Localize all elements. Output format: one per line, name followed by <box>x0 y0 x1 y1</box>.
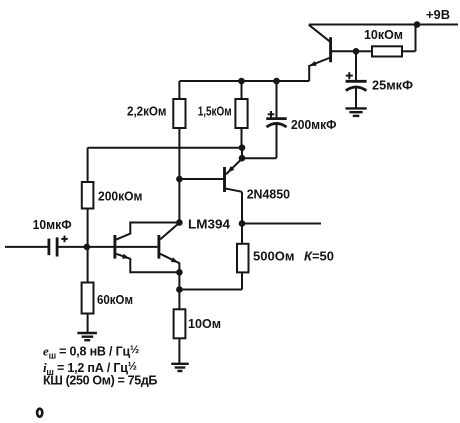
transistor LM394 left base bar <box>113 235 116 259</box>
svg-text:2N4850: 2N4850 <box>247 187 290 202</box>
ground under 60kOhm <box>77 333 97 340</box>
resistor 10Ohm <box>174 309 186 338</box>
wire top bus <box>179 80 309 82</box>
svg-text:10Ом: 10Ом <box>188 316 221 331</box>
resistor 1.5kOhm <box>235 99 247 128</box>
wire 2N4850 collector down <box>241 192 243 224</box>
ground under 25uF <box>346 108 367 116</box>
svg-text:eш = 0,8 нВ / Гц½: eш = 0,8 нВ / Гц½ <box>43 344 139 361</box>
resistor 200kOhm leads <box>87 148 89 247</box>
transistor Q1 base wire <box>331 50 356 52</box>
svg-text:1,5кОм: 1,5кОм <box>198 103 232 118</box>
wire node to emitter node <box>241 148 243 159</box>
node 1.5k bottom <box>239 144 246 151</box>
svg-text:10мкФ: 10мкФ <box>33 217 72 232</box>
+9V rail wire <box>309 24 458 26</box>
wire bases <box>57 246 157 248</box>
resistor 10kOhm <box>372 46 402 56</box>
transistor LM394 right collector <box>160 223 179 240</box>
transistor 2N4850 base wire <box>179 178 223 180</box>
ground under 10Ohm <box>171 364 188 371</box>
node input bias <box>84 244 91 251</box>
resistor 2.2kOhm leads <box>178 81 180 179</box>
wire emitters down <box>178 272 180 309</box>
wire Q1 emitter down <box>308 65 310 81</box>
capacitor 200uF <box>266 81 286 158</box>
node LM394 collectors <box>176 219 183 226</box>
wire bottom bus <box>179 289 242 291</box>
transistor Q1 collector wire <box>309 25 330 42</box>
wire input <box>5 246 49 248</box>
transistor LM394 right base bar <box>157 235 160 259</box>
svg-text:КШ (250 Ом) = 75дБ: КШ (250 Ом) = 75дБ <box>43 374 157 388</box>
wire 10Ohm to ground <box>178 338 180 363</box>
node 200uF top <box>273 78 280 85</box>
svg-text:+9В: +9В <box>426 7 450 22</box>
capacitor 25uF <box>346 51 367 108</box>
wire output <box>242 223 321 225</box>
transistor LM394 right emitter <box>160 254 179 272</box>
node +9V junction <box>414 21 421 28</box>
resistor 1.5kOhm leads <box>241 81 243 148</box>
wire mid bus <box>88 147 242 149</box>
svg-text:60кОм: 60кОм <box>97 292 133 307</box>
svg-text:2,2кОм: 2,2кОм <box>127 103 167 118</box>
node 2N4850 base <box>176 176 183 183</box>
transistor LM394 left collector <box>116 223 179 240</box>
capacitor 10uF <box>49 236 68 257</box>
node base of Q1 / 10k / 25uF <box>353 48 360 55</box>
transistor Q1 base bar <box>329 37 332 62</box>
node 2N4850 emitter <box>239 155 246 162</box>
wire 200uF bottom to emitter node <box>242 157 277 159</box>
svg-text:К=50: К=50 <box>304 249 334 264</box>
resistor 500Ohm leads <box>241 224 243 290</box>
transistor 2N4850 collector <box>225 188 243 192</box>
svg-text:500Ом: 500Ом <box>253 249 295 264</box>
node 1.5k top <box>238 78 245 85</box>
node emitters <box>176 269 183 276</box>
svg-text:200мкФ: 200мкФ <box>291 117 337 132</box>
transistor Q1 emitter <box>309 58 330 67</box>
resistor 2.2kOhm <box>173 99 185 128</box>
resistor 60kOhm leads <box>87 247 89 333</box>
transistor 2N4850 emitter <box>226 159 242 175</box>
figure sub-label o <box>37 409 42 417</box>
resistor 60kOhm <box>82 283 94 314</box>
resistor 10kOhm leads <box>356 25 416 52</box>
node bottom bus <box>176 286 183 293</box>
wire collectors node down from base node <box>178 179 180 223</box>
svg-text:200кОм: 200кОм <box>98 188 143 203</box>
resistor 200kOhm <box>82 182 94 209</box>
node output <box>239 220 246 227</box>
transistor 2N4850 base bar <box>223 167 226 192</box>
svg-text:10кОм: 10кОм <box>364 27 403 42</box>
resistor 500Ohm <box>237 244 249 273</box>
transistor LM394 left emitter <box>116 254 179 272</box>
svg-text:25мкФ: 25мкФ <box>372 78 413 93</box>
svg-text:LM394: LM394 <box>188 217 231 232</box>
